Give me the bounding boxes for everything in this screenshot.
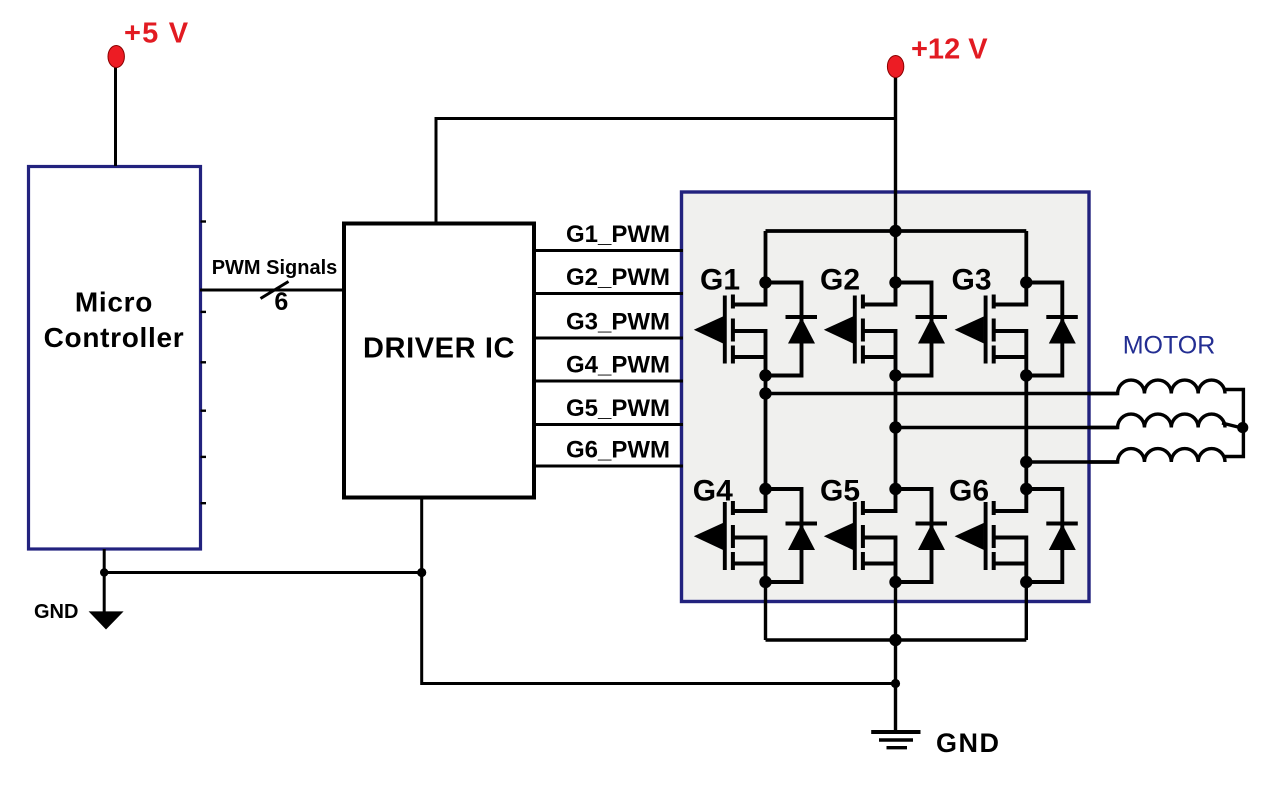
- svg-text:G2: G2: [820, 264, 860, 297]
- svg-text:+12 V: +12 V: [911, 34, 988, 66]
- svg-text:+5 V: +5 V: [124, 18, 189, 50]
- svg-text:PWM Signals: PWM Signals: [212, 257, 338, 279]
- svg-text:Micro: Micro: [75, 287, 153, 318]
- svg-text:G3: G3: [952, 264, 992, 297]
- svg-text:GND: GND: [34, 601, 78, 623]
- svg-text:G3_PWM: G3_PWM: [566, 309, 670, 336]
- svg-text:G6_PWM: G6_PWM: [566, 437, 670, 464]
- svg-text:6: 6: [274, 288, 288, 316]
- svg-text:G1_PWM: G1_PWM: [566, 221, 670, 248]
- svg-text:G5_PWM: G5_PWM: [566, 395, 670, 422]
- svg-text:G1: G1: [700, 264, 740, 297]
- svg-text:G5: G5: [820, 475, 860, 508]
- svg-text:Controller: Controller: [44, 322, 185, 353]
- svg-text:MOTOR: MOTOR: [1123, 332, 1216, 360]
- svg-text:G4_PWM: G4_PWM: [566, 352, 670, 379]
- svg-text:DRIVER IC: DRIVER IC: [363, 333, 515, 365]
- svg-text:GND: GND: [936, 728, 1001, 758]
- svg-text:G6: G6: [949, 475, 989, 508]
- svg-text:G4: G4: [693, 475, 733, 508]
- svg-text:G2_PWM: G2_PWM: [566, 264, 670, 291]
